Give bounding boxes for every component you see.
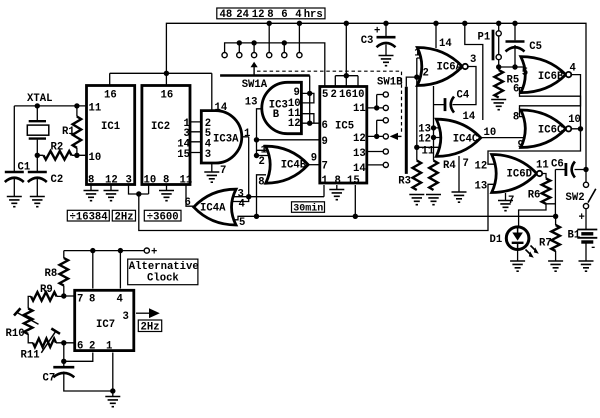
svg-text:5: 5 [522, 67, 528, 79]
wire: P1/R5/C5 node to IC6B input 5 [499, 23, 524, 70]
svg-text:-: - [590, 242, 596, 254]
wire: C4 right plate to IC6A output 3 [453, 67, 477, 105]
svg-text:11: 11 [422, 146, 435, 158]
switch SW1B contact 3 [383, 118, 388, 123]
junction at (464.8,23.3) [462, 21, 467, 26]
switch SW2 [583, 182, 588, 187]
svg-text:9: 9 [311, 153, 317, 165]
junction at (248.7,196.7) [246, 194, 251, 199]
IC7 timer box [75, 290, 134, 350]
svg-text:C4: C4 [457, 90, 470, 102]
svg-text:1: 1 [106, 341, 112, 353]
svg-text:IC4B: IC4B [281, 160, 307, 172]
wire: R7 leads [555, 216, 557, 261]
wire: IC4B output 9 to IC5 pin7 [308, 164, 321, 166]
switch SW1A contact 3 [252, 53, 257, 58]
svg-text:12: 12 [252, 9, 265, 21]
svg-text:SW1B: SW1B [377, 77, 403, 89]
capacitor C4 [444, 98, 447, 111]
label box 2Hz [112, 210, 135, 221]
svg-text:16: 16 [161, 90, 174, 102]
junction at (498.7,67) [496, 64, 501, 69]
svg-text:R2: R2 [51, 142, 64, 154]
svg-text:10: 10 [568, 114, 581, 126]
svg-text:2: 2 [89, 341, 95, 353]
ground under IC2 pin8 [159, 191, 174, 201]
junction at (138.8,194) [136, 191, 141, 196]
junction at (256.5,155.5) [254, 153, 259, 158]
capacitor C6 [565, 163, 568, 176]
svg-text:6: 6 [185, 197, 191, 209]
junction at (346.3,75.7) [344, 73, 349, 78]
switch SW1A contact 2 [237, 53, 242, 58]
svg-text:6: 6 [322, 120, 328, 132]
battery B1 [577, 229, 597, 231]
resistor R6 [542, 179, 551, 204]
svg-text:1: 1 [414, 48, 420, 60]
wire: D1 cathode to ground [517, 251, 519, 262]
svg-text:4: 4 [570, 63, 577, 75]
svg-text:24: 24 [236, 9, 249, 21]
IC7 pin3 output arrow [149, 308, 160, 318]
wire: IC3A pin7 ground stub [211, 163, 213, 172]
svg-text:48: 48 [220, 9, 233, 21]
junction at (309.7,93.4) [307, 91, 312, 96]
svg-text:8: 8 [89, 294, 95, 306]
svg-text:C7: C7 [43, 373, 56, 385]
wire: positive supply rail from IC2 pin16 corner across top and down right side [166, 23, 586, 182]
switch SW1A wiper bar [220, 74, 310, 77]
junction at (92.8,250.6) [90, 248, 95, 253]
svg-text:R3: R3 [398, 176, 411, 188]
wire: IC2 outputs to IC3A inputs stubs [191, 122, 207, 153]
wire: IC6A pin14 supply stub [435, 23, 437, 48]
junction at (299.4,23.3) [297, 21, 302, 26]
wire: IC1/IC2 pin16 and IC3A pin14 supply branch [110, 73, 212, 111]
capacitor C2 [28, 171, 47, 174]
svg-text:IC6B: IC6B [538, 71, 564, 83]
junction at (555.6,216.3) [553, 214, 558, 219]
junction at (416.8,77.1) [414, 74, 419, 79]
svg-text:2Hz: 2Hz [141, 322, 160, 334]
wire: IC7 pin6/pin2/C7 node [64, 343, 93, 366]
wire: IC6D pin7 ground stub [505, 193, 507, 201]
wire: IC2 pin11 down to IC4A output 6 [186, 185, 195, 206]
svg-text:8: 8 [335, 175, 341, 187]
wire: IC5 supply pins 5/2/16/10 bracket from rail [335, 23, 358, 85]
svg-text:8: 8 [267, 9, 273, 21]
junction at (254.1,42.9) [251, 40, 256, 45]
junction at (63.8,296) [61, 293, 66, 298]
junction at (256.5,139.8) [254, 137, 259, 142]
junction at (416.8,147.3) [414, 145, 419, 150]
ground under IC4C pin7 [452, 192, 467, 202]
svg-text:7: 7 [508, 195, 514, 207]
svg-text:2: 2 [259, 156, 265, 168]
junction at (76.9,105.9) [74, 103, 79, 108]
svg-text:IC3A: IC3A [213, 134, 239, 146]
svg-text:6: 6 [281, 9, 287, 21]
svg-text:C6: C6 [551, 159, 564, 171]
wire: IC3B pins 9/10 and 11/12 brackets to IC5 pin6 [302, 76, 321, 124]
svg-text:13: 13 [245, 97, 258, 109]
svg-text:hrs: hrs [304, 9, 323, 21]
svg-text:P1: P1 [478, 32, 491, 44]
gate IC6D NOR [492, 155, 537, 193]
capacitor C5 [506, 40, 525, 43]
svg-text:R8: R8 [45, 268, 58, 280]
wire: IC6B output 4 cross-couple to IC6C input 8 [520, 75, 581, 117]
switch SW1A contact 1 [222, 53, 227, 58]
svg-text:12: 12 [353, 133, 366, 145]
switch SW1A contact 6 [297, 53, 302, 58]
svg-text:IC6A: IC6A [437, 62, 463, 74]
label box Alternative Clock [128, 259, 198, 285]
junction at (586,169.5) [583, 167, 588, 172]
svg-text:÷16384: ÷16384 [70, 212, 109, 224]
svg-text:14: 14 [353, 163, 366, 175]
switch SW1A wiper arrow [253, 67, 255, 76]
svg-text:10: 10 [89, 152, 102, 164]
op-amp gate IC3A 4-input AND [201, 111, 242, 163]
wire: IC1 pin3 to IC2 pin10 and long wire to IC6D pin13 [129, 184, 499, 230]
wire: crystal oscillator net XTAL to IC1 pins 11/10 [14, 106, 85, 197]
ground under C7/IC7 pin1 [105, 397, 120, 407]
ground under C1 [7, 197, 22, 207]
svg-text:IC5: IC5 [335, 121, 354, 133]
svg-text:11: 11 [89, 103, 102, 115]
capacitor C3 electrolytic [377, 36, 396, 39]
svg-text:1610: 1610 [339, 89, 364, 101]
IC1 counter box [87, 86, 135, 185]
wire: C3 leads from rail to ground [385, 23, 387, 55]
svg-text:6: 6 [77, 341, 83, 353]
svg-text:2: 2 [331, 89, 337, 101]
ground under IC6D pin7 [498, 201, 513, 211]
svg-text:R4: R4 [443, 160, 456, 172]
svg-text:14: 14 [215, 102, 228, 114]
trimmer R11 [33, 339, 56, 348]
wire: output net wire1 IC4A.5 IC4B.8 IC5.15 to R7/C6 [231, 175, 556, 220]
svg-text:13: 13 [353, 148, 366, 160]
resistor R5 [494, 70, 503, 98]
svg-text:30min: 30min [293, 203, 323, 215]
wire: IC6A inputs 1/2 tied, down to IC4C input 11 and R3 [417, 58, 445, 161]
wire: C7 bottom to ground wire and IC7 pin1 [64, 353, 113, 397]
capacitor C1 [5, 171, 24, 174]
label box div 16384 [67, 210, 109, 221]
svg-text:SW2: SW2 [566, 192, 585, 204]
junction at (580.5,128.8) [578, 126, 583, 131]
svg-text:4: 4 [295, 9, 302, 21]
svg-text:3: 3 [470, 54, 476, 66]
junction at (166.4,73.3) [164, 71, 169, 76]
label box div 3600 [144, 210, 181, 221]
gate IC6B NOR [521, 57, 566, 93]
svg-text:+: + [374, 26, 380, 38]
resistor R4 [429, 161, 438, 191]
switch SW1B contact 1 [383, 92, 388, 97]
label box 30min [292, 202, 325, 213]
junction at (498.7,23.3) [496, 21, 501, 26]
junction at (37.3,105.9) [35, 103, 40, 108]
svg-text:10: 10 [144, 175, 157, 187]
junction at (355.3,216.3) [353, 214, 358, 219]
junction at (346.3,23.3) [344, 21, 349, 26]
wire: IC4C output 10 to IC6C input 9 [481, 137, 529, 139]
svg-text:C1: C1 [18, 162, 31, 174]
ground under B1 [579, 261, 594, 271]
svg-text:12: 12 [418, 134, 431, 146]
wire: IC4C pin14 supply branch [465, 23, 483, 120]
svg-text:1: 1 [261, 145, 267, 157]
svg-text:7: 7 [322, 161, 328, 173]
wire: IC7 supply wire to + terminal [64, 251, 144, 289]
ground under R5 [491, 100, 506, 110]
label box 2Hz IC7 [138, 320, 161, 332]
svg-text:C3: C3 [361, 35, 374, 47]
junction at (112.8,391) [110, 388, 115, 393]
ground under R7 [548, 261, 563, 271]
svg-text:8: 8 [88, 175, 94, 187]
svg-text:R6: R6 [528, 190, 541, 202]
wire: mechanical link dashed line SW1A to SW1B [257, 71, 402, 134]
label box 48 24 12 8 6 4 hrs [217, 8, 325, 19]
pushbutton P1 [492, 30, 495, 61]
svg-text:9: 9 [322, 136, 328, 148]
svg-text:4: 4 [117, 294, 124, 306]
svg-text:IC7: IC7 [96, 319, 115, 331]
junction at (284.3,42.9) [282, 40, 287, 45]
svg-text:14: 14 [463, 111, 476, 123]
svg-text:5: 5 [322, 89, 328, 101]
wire: SW1A contacts 4 and 6 risers to supply rail [269, 23, 299, 52]
wire: IC1 pins 8/12 ground stubs [91, 185, 111, 191]
svg-text:Clock: Clock [147, 272, 179, 284]
svg-text:6: 6 [513, 84, 519, 96]
svg-text:2: 2 [423, 68, 429, 80]
wire: IC5 pins 11-14 to rotary switch SW1B contacts [368, 95, 384, 165]
resistor R8 [60, 258, 69, 286]
trimmer R10 [24, 309, 33, 335]
svg-text:IC1: IC1 [101, 121, 120, 133]
wire: IC7 pin3 output stub [136, 312, 149, 314]
junction at (433.5,137.5) [431, 135, 436, 140]
svg-text:IC4A: IC4A [200, 203, 226, 215]
svg-text:C5: C5 [529, 41, 542, 53]
svg-text:D1: D1 [490, 234, 503, 246]
svg-text:+: + [151, 247, 157, 259]
switch SW1B contact 4 [383, 134, 388, 139]
ground under IC3A pin7 [204, 172, 219, 182]
svg-text:15: 15 [177, 149, 190, 161]
wire: IC2 pin8 ground stub [166, 185, 168, 191]
junction at (37.3,155.3) [35, 153, 40, 158]
svg-text:2Hz: 2Hz [115, 212, 134, 224]
wire: SW1B common bar link to IC6A inputs [406, 77, 417, 87]
wire: IC4C pin7 to ground [458, 156, 460, 192]
resistor R9 [31, 292, 57, 301]
junction at (269.2,23.3) [267, 21, 272, 26]
svg-text:3: 3 [126, 175, 132, 187]
resistor R3 [413, 161, 422, 191]
ground under R4 [426, 195, 441, 205]
junction at (120.4,250.6) [118, 248, 123, 253]
junction at (63.8,361.3) [61, 359, 66, 364]
svg-text:11: 11 [180, 175, 193, 187]
junction at (433.5,127.9) [431, 125, 436, 130]
junction at (63.8,342.8) [61, 340, 66, 345]
svg-text:C2: C2 [51, 174, 64, 186]
svg-text:8: 8 [163, 175, 169, 187]
svg-text:8: 8 [513, 112, 519, 124]
LED D1 light arrows [526, 246, 537, 256]
wire: IC6C output 10 cross-couple to IC6B input 6 and to IC6D input 12 [488, 88, 581, 165]
junction at (76.9,155.3) [74, 153, 79, 158]
ground under C3 [379, 56, 394, 66]
switch SW1A contact 4 [267, 53, 272, 58]
svg-text:1: 1 [322, 175, 328, 187]
wire: R8/R9/IC7 pin7 node [28, 286, 73, 309]
resistor R7 [551, 225, 560, 251]
switch SW1B contact 5 [383, 149, 388, 154]
svg-text:Alternative: Alternative [129, 261, 199, 273]
svg-text:5: 5 [239, 217, 245, 229]
junction at (515,23.3) [512, 21, 517, 26]
svg-text:IC4C: IC4C [453, 134, 479, 146]
wire: IC6D output 11 to R6 [519, 174, 556, 227]
capacitor C7 [53, 366, 74, 369]
terminal + of alternative clock [144, 248, 149, 253]
ground under R3 [409, 195, 424, 205]
wire: pushbutton P1 branch from rail [498, 23, 500, 67]
svg-text:+: + [579, 212, 585, 224]
svg-text:IC2: IC2 [151, 121, 170, 133]
gate IC4B 3-input OR [266, 146, 309, 183]
gate IC4C 3-input OR [436, 119, 481, 156]
wire: IC3A output 1 down to IC4A inputs 3/4 and IC5 pin1 [232, 137, 324, 202]
svg-text:3: 3 [123, 311, 129, 323]
ground under C2 [30, 197, 45, 207]
wire: IC3B pin13 net down to IC5 pin9 and IC4B inputs 1/2 [257, 109, 321, 156]
wire: R10/R11 series link [28, 334, 73, 343]
svg-text:3: 3 [205, 149, 211, 161]
svg-text:12: 12 [105, 175, 118, 187]
svg-text:XTAL: XTAL [27, 93, 52, 105]
wire: C4 net - IC6A pin down through IC4C inputs 13/12 to R4 [434, 86, 445, 161]
svg-text:IC6D: IC6D [507, 169, 532, 181]
svg-text:14: 14 [439, 38, 452, 50]
gate IC6A NOR [417, 48, 462, 86]
IC2 counter box [142, 86, 190, 185]
svg-text:B: B [273, 109, 280, 121]
switch SW1B wiper arrow [397, 135, 402, 137]
svg-text:12: 12 [475, 161, 488, 173]
svg-text:11: 11 [353, 103, 366, 115]
junction at (256.5,216.3) [254, 214, 259, 219]
wire: IC5 pin8 ground stub [336, 185, 338, 190]
svg-text:SW1A: SW1A [242, 79, 268, 91]
svg-text:7: 7 [220, 165, 226, 177]
ground under D1 [510, 261, 525, 271]
svg-text:7: 7 [463, 158, 469, 170]
svg-text:11: 11 [536, 160, 549, 172]
IC5 counter box [320, 87, 367, 184]
svg-text:R9: R9 [40, 284, 53, 296]
resistor R2 [44, 151, 72, 160]
junction at (239.3,42.9) [237, 40, 242, 45]
svg-text:16: 16 [104, 90, 117, 102]
resistor R1 [73, 117, 82, 148]
switch SW1A contact 5 [282, 53, 287, 58]
switch SW1B contact 2 [383, 105, 388, 110]
svg-text:R11: R11 [21, 350, 40, 362]
gate IC3B 4-input AND mirrored [262, 82, 302, 133]
junction at (376.7,136.4) [374, 134, 379, 139]
svg-text:R7: R7 [539, 238, 552, 250]
svg-text:R1: R1 [62, 126, 75, 138]
junction at (376.7,107.9) [374, 105, 379, 110]
svg-text:15: 15 [347, 175, 360, 187]
junction at (515,67) [512, 64, 517, 69]
wire: C6 left plate to output net and R6/D1 links [555, 170, 586, 217]
junction at (309.7,123.2) [307, 121, 312, 126]
gate IC6C NOR [521, 110, 566, 148]
gate IC4A 3-input OR mirrored [194, 189, 236, 225]
svg-text:1: 1 [244, 128, 250, 140]
svg-text:7: 7 [77, 294, 83, 306]
wire: SW2 to battery B1 and ground [585, 209, 587, 261]
svg-text:÷3600: ÷3600 [147, 212, 179, 224]
wire: SW1A row wire to contacts and down to IC5 pin 5 [225, 43, 325, 86]
ground under IC1 pin12 [104, 191, 119, 201]
svg-text:B1: B1 [568, 230, 581, 242]
svg-text:9: 9 [518, 140, 524, 152]
switch SW1B contact 6 [383, 162, 388, 167]
ground under IC1 pin8 [84, 191, 99, 201]
svg-text:12: 12 [288, 118, 301, 130]
svg-text:R10: R10 [6, 328, 25, 340]
junction at (436,23.3) [433, 21, 438, 26]
junction at (386,23.3) [383, 21, 388, 26]
svg-text:13: 13 [475, 181, 488, 193]
ground under IC5 pin8 [329, 190, 344, 200]
LED D1 [506, 227, 529, 250]
svg-text:8: 8 [258, 177, 264, 189]
svg-text:4: 4 [239, 199, 246, 211]
switch SW1B wiper bar [405, 87, 408, 174]
svg-text:IC6C: IC6C [538, 125, 564, 137]
crystal XTAL [29, 121, 46, 138]
svg-text:10: 10 [484, 127, 497, 139]
